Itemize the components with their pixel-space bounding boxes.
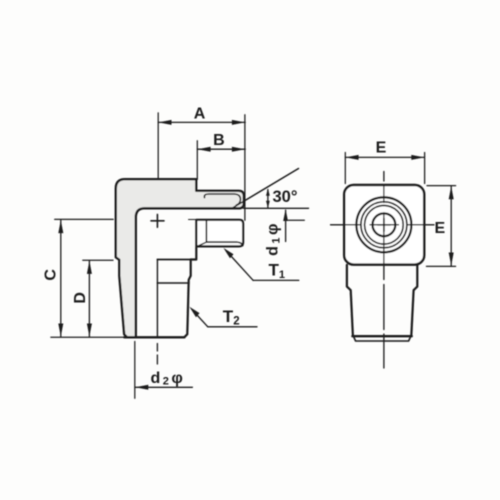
shared bottom extension line for C and D (51, 336, 126, 338)
dimension E (right) line (450, 186, 452, 266)
dimension D line (88, 261, 90, 337)
column top shoulder line (157, 259, 190, 261)
svg-text:C: C (43, 269, 60, 281)
svg-text:D: D (72, 292, 89, 304)
dimension C arrows (58, 220, 63, 233)
dimension C extension line (top) (55, 218, 113, 220)
dimension C line (60, 220, 62, 337)
30-degree angular dimension arrow (267, 190, 269, 208)
dimension A line (158, 121, 245, 123)
vertical centerline (right view) (383, 172, 385, 369)
T1 stub bottom-left chamfer (197, 242, 206, 246)
svg-text:T1: T1 (269, 261, 286, 281)
dimension E (right) extension lines (427, 185, 456, 187)
dimension D extension line (top) (83, 259, 113, 261)
svg-text:30°: 30° (273, 188, 298, 206)
bottom port centerline dashes below part (156, 344, 158, 365)
center cross of port axes (151, 214, 164, 227)
T1 leader arrow (223, 248, 233, 258)
stub bottom chamfer edge (354, 337, 411, 342)
svg-text:B: B (213, 132, 225, 149)
square body face (344, 185, 424, 265)
dimension B line (197, 148, 245, 150)
bottom thread stub (right view) neck (347, 265, 353, 336)
svg-text:T2: T2 (223, 307, 240, 327)
elbow body (gray silhouette, left view) (116, 179, 244, 337)
svg-text:A: A (194, 106, 206, 123)
dimension A extension lines (157, 113, 159, 179)
nose inner thread-relief line (204, 194, 240, 205)
svg-text:d1φ: d1φ (265, 221, 283, 256)
dimension A arrows (158, 120, 171, 125)
center cross (right view) (378, 218, 391, 231)
svg-text:d2φ: d2φ (151, 370, 186, 388)
stub bottom edge (352, 335, 411, 337)
thread pitch circle (361, 202, 407, 248)
thread outer circle (356, 197, 411, 252)
T1 stub inner bottom line (206, 242, 242, 245)
bottom column bottom edge (124, 336, 184, 338)
d2 extension line (134, 342, 136, 399)
axis dash right of column (189, 219, 197, 221)
T1 thread stub (side port) (196, 220, 243, 247)
thread start divider on bottom port (157, 282, 189, 284)
bottom port centerline inside column (156, 260, 158, 338)
d2 dimension line (135, 386, 192, 388)
body step under side port (191, 247, 197, 259)
dimension E (top) line (345, 156, 424, 158)
T1 stub inner vertical line (205, 220, 207, 242)
thread inner circle (365, 206, 404, 245)
dimension B extension line (196, 141, 198, 180)
svg-text:E: E (435, 220, 446, 237)
bore circle (373, 213, 396, 236)
dimension D arrows (87, 261, 92, 274)
svg-text:E: E (376, 139, 387, 156)
dimension B arrows (198, 147, 211, 152)
dimension E (top) extension lines (344, 153, 346, 184)
d1 dimension arrow line (285, 210, 287, 241)
d1 lower reference tick (288, 219, 304, 221)
horizontal reference line (thin, right of body) (244, 207, 309, 209)
bottom column right edge (184, 260, 190, 338)
T2 leader arrow (189, 307, 199, 317)
horizontal centerline (right view) (331, 224, 435, 226)
flare cone 30-degree line (232, 169, 299, 209)
